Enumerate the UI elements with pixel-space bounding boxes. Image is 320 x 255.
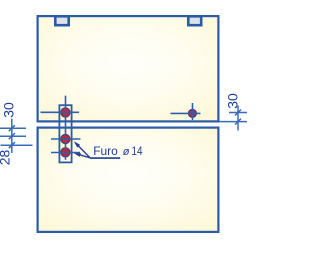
tick left B: [9, 133, 15, 139]
crosshair hole H4 horizontal: [171, 112, 201, 114]
mounting strip outline: [59, 105, 71, 162]
crosshair hole H2: [51, 138, 81, 140]
svg-text:30: 30: [1, 102, 17, 118]
crosshair hole H3: [51, 152, 80, 154]
top panel (lid): [38, 16, 219, 121]
svg-text:14: 14: [132, 144, 143, 158]
hole H3 (bottom panel lower): [61, 148, 70, 157]
svg-text:28: 28: [0, 150, 13, 166]
arrowhead at hole H3: [74, 153, 81, 157]
bottom panel (box): [38, 128, 219, 232]
svg-text:ø: ø: [123, 146, 130, 158]
right extension line lower: [220, 121, 248, 123]
tick left A: [9, 125, 15, 131]
arrowhead at hole H2: [74, 141, 80, 147]
right hinge tab: [188, 16, 201, 25]
leader line to hole H3: [79, 155, 90, 158]
svg-text:Furo: Furo: [93, 144, 118, 158]
left extension line B: [0, 135, 26, 137]
left extension line C: [1, 144, 33, 146]
tick left C: [9, 142, 15, 148]
tick right upper: [235, 110, 241, 116]
right extension line upper: [229, 112, 247, 114]
crosshair hole H4 vertical: [192, 103, 194, 120]
svg-text:30: 30: [224, 93, 240, 109]
right dimension line: [237, 106, 239, 131]
tick right lower: [235, 119, 241, 125]
left extension line A: [0, 127, 26, 129]
left dimension line: [11, 119, 13, 153]
left hinge tab: [55, 16, 68, 25]
hole H2 (bottom panel upper): [61, 134, 70, 143]
centerline vertical through left holes: [65, 96, 67, 160]
hole H1 (top panel): [61, 108, 70, 117]
hole H4 (right, top panel): [188, 109, 196, 117]
crosshair hole H1: [41, 111, 80, 113]
leader line to hole H2: [77, 144, 91, 158]
